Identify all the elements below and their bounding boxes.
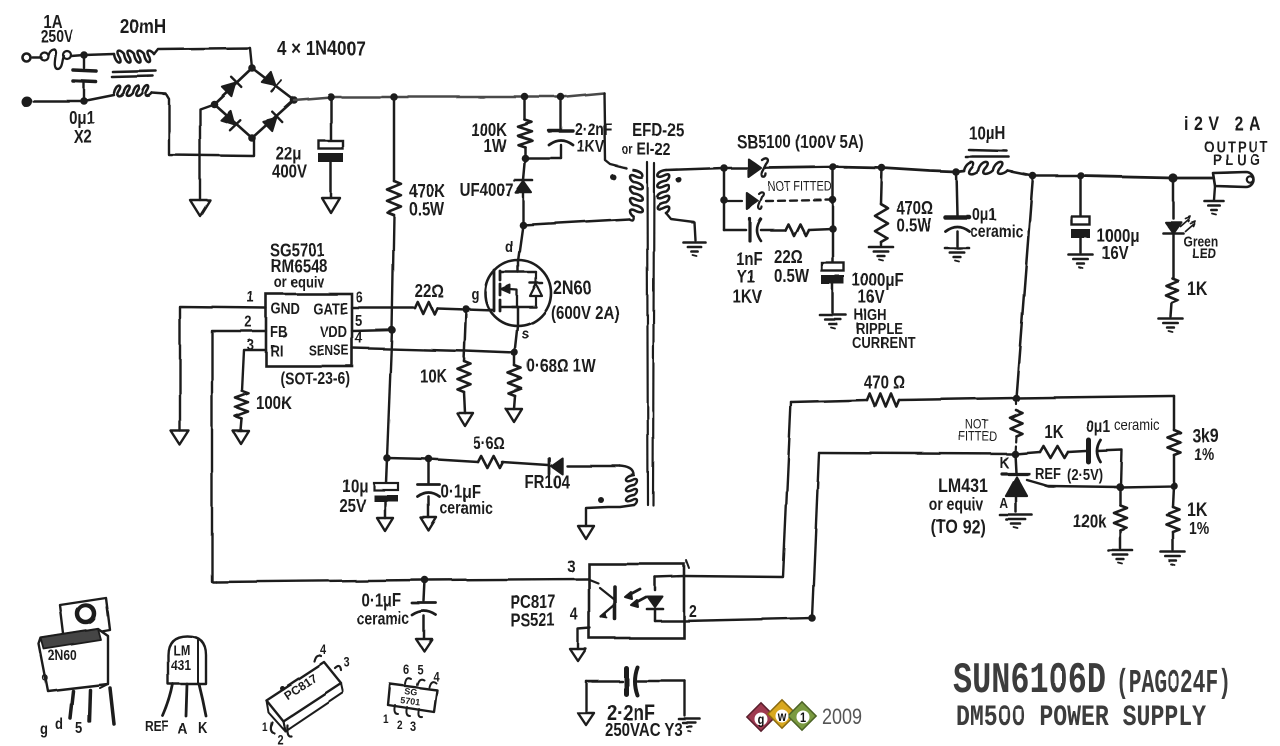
svg-text:1K: 1K — [1187, 499, 1208, 521]
svg-text:6: 6 — [403, 662, 409, 677]
svg-text:(2·5V): (2·5V) — [1067, 467, 1103, 484]
bridge diode D4 — [263, 112, 282, 131]
wire — [429, 459, 478, 462]
svg-text:w: w — [777, 709, 787, 724]
svg-text:100K: 100K — [256, 393, 292, 414]
node K — [1011, 450, 1019, 458]
wire — [502, 462, 548, 465]
label 120k — [1073, 511, 1107, 532]
ground — [1161, 552, 1185, 566]
wire — [1170, 455, 1178, 490]
svg-text:0μ1: 0μ1 — [69, 108, 95, 129]
wire not fitted dashed — [724, 200, 833, 201]
wire pin2 FB — [212, 331, 266, 582]
wire pin5 VDD — [352, 330, 392, 331]
LED green — [1163, 178, 1195, 233]
svg-text:16V: 16V — [1102, 243, 1129, 264]
node — [327, 93, 335, 101]
label SB5100 100V 5A — [737, 132, 864, 153]
svg-text:16V: 16V — [858, 287, 885, 308]
svg-text:20mH: 20mH — [120, 16, 166, 39]
capacitor C4 0.1uF ceramic — [418, 459, 440, 518]
node bridge bottom — [248, 134, 256, 142]
label 3k9 1% — [1192, 425, 1219, 465]
ground — [506, 409, 522, 422]
choke core — [112, 71, 156, 77]
svg-text:2: 2 — [245, 314, 252, 331]
ground — [1205, 201, 1224, 215]
svg-text:CURRENT: CURRENT — [852, 335, 916, 352]
svg-text:LED: LED — [1192, 245, 1216, 261]
wire — [567, 465, 620, 467]
pin number 1 — [247, 289, 254, 306]
svg-text:g: g — [758, 712, 765, 727]
label EFD-25 or EI-22 — [622, 120, 684, 160]
label 0u1 ceramic — [970, 206, 1023, 242]
pin number 1 tick — [686, 560, 689, 568]
wire HV rail — [294, 93, 604, 100]
node — [1116, 483, 1124, 491]
label 0.1uF ceramic — [440, 482, 493, 519]
svg-text:LM431: LM431 — [938, 475, 988, 497]
package LM431 pin labels — [145, 718, 208, 738]
package 2N60 pin labels — [40, 716, 82, 738]
svg-text:0·68Ω 1W: 0·68Ω 1W — [527, 356, 596, 377]
pin label VDD — [320, 324, 347, 341]
svg-text:DM500 POWER SUPPLY: DM500 POWER SUPPLY — [956, 701, 1206, 735]
svg-text:Y1: Y1 — [737, 267, 755, 288]
wire plug ground — [1214, 186, 1215, 200]
package 2N60 pin o — [42, 671, 48, 684]
label 0u1 ceramic — [1086, 417, 1160, 436]
svg-text:10K: 10K — [420, 366, 447, 387]
svg-text:250V: 250V — [41, 28, 74, 47]
label 5.6R — [473, 435, 504, 454]
svg-text:3: 3 — [567, 558, 575, 577]
svg-text:LM: LM — [173, 642, 190, 658]
svg-text:EI-22: EI-22 — [637, 141, 671, 160]
capacitor CX 0u1 X2 — [73, 55, 96, 101]
ground — [578, 713, 594, 725]
package SG5701 top pins — [405, 678, 436, 687]
svg-text:1W: 1W — [484, 136, 507, 157]
wire pin1 — [684, 402, 791, 577]
svg-text:25V: 25V — [339, 496, 366, 517]
svg-text:4 × 1N4007: 4 × 1N4007 — [277, 38, 365, 61]
package 2N60 label — [48, 647, 77, 663]
capacitor C10 1000u 16V — [1072, 176, 1090, 253]
package LM431 legs — [163, 684, 206, 716]
optocoupler light arrows — [625, 589, 646, 607]
svg-text:0.5W: 0.5W — [409, 199, 444, 220]
svg-text:RI: RI — [270, 343, 283, 360]
svg-text:1: 1 — [383, 713, 389, 726]
capacitor C2 2.2nF 1KV — [525, 97, 573, 158]
svg-text:or equiv: or equiv — [274, 274, 325, 291]
svg-text:A: A — [999, 495, 1008, 511]
svg-text:10μH: 10μH — [969, 123, 1006, 144]
resistor R3 100K — [236, 391, 249, 419]
svg-text:1K: 1K — [1044, 422, 1063, 443]
label K — [1000, 455, 1010, 472]
wire — [524, 97, 527, 120]
wire — [1008, 171, 1178, 183]
wire — [464, 309, 466, 361]
ground — [233, 431, 249, 444]
label FR104 — [525, 472, 571, 493]
resistor R8 470R — [867, 394, 899, 407]
svg-text:470 Ω: 470 Ω — [863, 372, 904, 393]
svg-text:SB5100 (100V 5A): SB5100 (100V 5A) — [737, 132, 864, 153]
pin label RI — [270, 343, 283, 360]
svg-text:VDD: VDD — [320, 324, 347, 341]
pin number 2 — [245, 314, 252, 331]
pin label FB — [270, 324, 287, 341]
label 2.2nF 250VAC Y3 — [605, 701, 683, 740]
svg-text:5: 5 — [417, 662, 423, 677]
svg-text:2: 2 — [689, 603, 697, 622]
wire — [1016, 396, 1174, 398]
svg-text:o: o — [42, 671, 48, 684]
svg-text:0·1μF: 0·1μF — [361, 590, 401, 611]
label A — [999, 495, 1008, 511]
package 2N60 body — [39, 629, 108, 691]
svg-text:ceramic: ceramic — [356, 610, 409, 629]
MOSFET Q1 2N60 — [485, 225, 551, 353]
svg-text:SUN6106D: SUN6106D — [953, 656, 1106, 706]
ground — [421, 518, 437, 531]
label s — [522, 326, 529, 343]
label 22u 400V — [272, 144, 308, 183]
svg-text:ceramic: ceramic — [970, 223, 1023, 242]
svg-text:2N60: 2N60 — [553, 277, 591, 299]
wire — [330, 162, 333, 198]
package SG5701 label — [400, 686, 421, 707]
svg-text:FITTED: FITTED — [959, 429, 998, 444]
svg-text:i2V 2A: i2V 2A — [1184, 113, 1266, 135]
label 1000uF 16V high ripple — [852, 270, 916, 353]
svg-text:431: 431 — [171, 657, 192, 673]
svg-text:0μ1: 0μ1 — [1086, 418, 1110, 437]
transformer T1 primary winding — [630, 170, 643, 216]
svg-text:g: g — [471, 286, 479, 303]
svg-text:d: d — [55, 716, 63, 733]
package LM431 label — [171, 642, 192, 673]
pin number 4 — [570, 606, 578, 625]
label 10uH — [969, 123, 1006, 144]
svg-text:250VAC Y3: 250VAC Y3 — [605, 720, 683, 741]
wire — [84, 95, 114, 101]
wire VDD line — [387, 215, 394, 458]
node bridge left — [210, 100, 218, 108]
svg-text:400V: 400V — [272, 162, 308, 183]
svg-text:22Ω: 22Ω — [774, 247, 803, 268]
svg-text:SENSE: SENSE — [308, 342, 349, 358]
label 12V 2A — [1184, 113, 1266, 135]
capacitor C1 22u 400V — [319, 141, 343, 162]
title DM500 POWER SUPPLY — [956, 701, 1206, 735]
svg-text:1KV: 1KV — [733, 287, 763, 308]
svg-text:6: 6 — [356, 290, 363, 307]
optocoupler LED — [647, 576, 684, 621]
resistor R2 100K 1W — [518, 120, 532, 147]
ground — [377, 518, 393, 531]
node — [878, 164, 886, 172]
wire — [586, 505, 634, 526]
wire — [1097, 450, 1122, 487]
ground — [869, 247, 893, 261]
ground — [578, 526, 594, 539]
svg-text:1K: 1K — [1187, 278, 1208, 300]
svg-text:1%: 1% — [1194, 446, 1214, 465]
svg-text:4: 4 — [320, 642, 326, 657]
wire — [1173, 396, 1176, 430]
wire REF — [1027, 480, 1174, 487]
label NOT FITTED — [959, 417, 998, 444]
label 10K — [420, 366, 447, 387]
svg-text:5: 5 — [355, 313, 362, 330]
label 100K — [256, 393, 292, 414]
resistor R1 470K 0.5W — [387, 181, 401, 215]
label 1K 1% — [1187, 499, 1209, 539]
wire — [71, 51, 88, 59]
ground — [1069, 255, 1093, 269]
bridge rectifier 4x1N4007 outline — [214, 68, 294, 138]
node — [521, 93, 529, 101]
wire — [464, 392, 465, 413]
label REF 2.5V — [1035, 466, 1103, 484]
choke L1 bottom winding — [114, 86, 152, 96]
label g — [471, 286, 479, 303]
package PC817 pin1 dot — [280, 686, 285, 691]
transformer T1 secondary winding — [657, 170, 669, 213]
wire pin2 — [684, 453, 819, 622]
wire pin3 stub — [588, 579, 598, 583]
svg-text:REF: REF — [1035, 466, 1061, 483]
capacitor C6 0u1 ceramic — [1089, 440, 1101, 462]
resistor R10 NOT FITTED — [1010, 398, 1022, 454]
svg-text:PS521: PS521 — [510, 610, 555, 631]
diode D6 FR104 — [549, 458, 562, 474]
LM431 body — [1006, 477, 1027, 512]
node gate — [462, 305, 470, 313]
label LM431 or equiv TO92 — [929, 475, 988, 538]
package 2N60 legs — [70, 688, 114, 724]
inductor L2 10uH — [964, 150, 1009, 174]
node — [383, 454, 391, 462]
ground — [457, 413, 473, 426]
package PC817 DIP body — [266, 662, 343, 731]
svg-text:0.5W: 0.5W — [774, 266, 809, 287]
wire K line — [819, 453, 1015, 454]
svg-text:GND: GND — [271, 301, 300, 318]
package 2N60 TO-220 tab — [60, 598, 110, 638]
node bridge top — [248, 64, 256, 72]
wire — [899, 394, 1020, 402]
optocoupler U2 PC817 box — [589, 564, 684, 638]
wire — [154, 48, 252, 68]
wire — [720, 168, 728, 230]
capacitor C11 2.2nF 250VAC Y — [586, 667, 685, 716]
label 1A 250V — [41, 12, 74, 47]
svg-text:120k: 120k — [1073, 511, 1107, 532]
logo gwi — [747, 700, 816, 731]
svg-text:0.5W: 0.5W — [896, 215, 931, 236]
resistor R4 22R — [415, 302, 437, 314]
pin number 3 — [567, 558, 575, 577]
resistor R16 1K — [1166, 233, 1178, 317]
svg-text:1KV: 1KV — [577, 138, 605, 157]
label UF4007 — [460, 180, 513, 201]
svg-text:3: 3 — [410, 719, 416, 734]
label SOT-23-6 — [280, 370, 350, 389]
diode D5 UF4007 — [514, 180, 532, 225]
svg-text:4: 4 — [570, 606, 578, 625]
label 22R — [415, 281, 444, 302]
wire — [387, 455, 433, 463]
svg-text:2: 2 — [397, 719, 403, 732]
svg-text:FB: FB — [270, 324, 287, 341]
svg-text:FR104: FR104 — [525, 472, 571, 493]
wire — [330, 97, 333, 141]
wire — [200, 104, 214, 200]
label 4 x 1N4007 — [277, 38, 365, 61]
ground — [945, 248, 969, 262]
package SG5701 bottom pins — [394, 705, 422, 717]
wire — [32, 56, 41, 59]
svg-text:g: g — [40, 721, 48, 738]
pin number 5 — [355, 313, 362, 330]
svg-text:(TO 92): (TO 92) — [931, 516, 986, 538]
capacitor C7 1nF Y1 1KV — [724, 219, 785, 241]
svg-text:s: s — [522, 326, 529, 343]
fuse F1 1A 250V — [40, 49, 71, 69]
wire — [523, 219, 629, 225]
svg-text:3k9: 3k9 — [1192, 425, 1219, 447]
capacitor C5 0.1uF ceramic FB — [216, 576, 436, 638]
node — [390, 93, 398, 101]
optocoupler phototransistor — [600, 587, 615, 619]
bridge diode D1 — [222, 77, 241, 96]
label d — [505, 239, 513, 256]
resistor R5 10K — [458, 361, 471, 392]
output plug — [1173, 172, 1254, 187]
svg-text:1: 1 — [262, 721, 268, 734]
svg-text:1%: 1% — [1189, 520, 1209, 539]
wire out rail — [766, 167, 964, 172]
label 0.68R 1W — [527, 356, 596, 377]
node — [829, 163, 837, 171]
node bridge right — [290, 96, 298, 104]
svg-text:(600V 2A): (600V 2A) — [551, 303, 619, 324]
svg-text:ceramic: ceramic — [1114, 417, 1160, 434]
svg-text:1: 1 — [800, 710, 806, 725]
svg-text:PLUG: PLUG — [1213, 152, 1264, 169]
label 1000u 16V — [1097, 226, 1140, 264]
wire — [829, 167, 837, 233]
svg-text:K: K — [198, 720, 208, 737]
label 1nF Y1 1KV — [733, 249, 763, 308]
package PC817 pins — [271, 655, 341, 736]
input terminal N — [22, 97, 31, 106]
svg-text:5: 5 — [75, 720, 82, 737]
package PC817 pin labels — [262, 642, 350, 746]
svg-text:3: 3 — [247, 337, 254, 354]
IC U1 SG5701 box — [266, 294, 352, 366]
label 1K — [1044, 422, 1063, 443]
wire pin3 RI — [242, 350, 266, 391]
capacitor C8 1000uF 16V — [822, 229, 844, 313]
ground secondary winding — [683, 242, 705, 256]
resistor R12 120k — [1114, 487, 1127, 548]
wire — [666, 168, 724, 170]
wire — [425, 579, 588, 580]
package LM431 TO-92 body — [168, 636, 206, 684]
wire — [720, 164, 748, 172]
label 470R — [863, 372, 904, 393]
ground — [1159, 319, 1183, 333]
svg-text:A: A — [178, 721, 188, 738]
ground — [570, 649, 586, 661]
wire — [666, 213, 695, 240]
wire pin6 GATE — [352, 307, 415, 310]
diode D8 not fitted — [747, 192, 764, 209]
svg-text:EFD-25: EFD-25 — [632, 120, 684, 141]
wire — [521, 147, 529, 180]
wire — [629, 216, 633, 220]
node — [557, 93, 565, 101]
svg-text:(SOT-23-6): (SOT-23-6) — [280, 370, 350, 389]
label 10u 25V — [339, 476, 368, 517]
input terminal L — [22, 53, 30, 61]
svg-text:NOT FITTED: NOT FITTED — [768, 179, 833, 194]
svg-text:0μ1: 0μ1 — [972, 206, 996, 225]
pin label GATE — [313, 301, 348, 318]
ground — [1108, 550, 1132, 564]
svg-text:2009: 2009 — [822, 705, 862, 729]
label green LED — [1183, 233, 1218, 261]
resistor R13 1K 1% — [1167, 486, 1180, 550]
resistor R7 5.6R — [478, 456, 503, 468]
pin label SENSE — [308, 342, 349, 358]
svg-text:2·2nF: 2·2nF — [575, 121, 612, 140]
LM431 shunt reg — [1002, 454, 1029, 474]
wire feedback drop — [1016, 176, 1033, 398]
label PC817 PS521 — [510, 592, 556, 631]
label SG5701 RM6548 or equiv — [269, 240, 327, 292]
wire pin4 SENSE — [352, 348, 515, 353]
pin label GND — [271, 301, 300, 318]
package SG5701 SOT-23 body — [388, 684, 437, 712]
svg-text:3: 3 — [344, 655, 350, 670]
ground — [820, 315, 846, 329]
svg-text:1: 1 — [247, 289, 254, 306]
pin number 6 — [356, 290, 363, 307]
wire — [393, 97, 396, 181]
resistor R11 1K — [1015, 446, 1086, 458]
phase dot secondary — [676, 177, 682, 183]
capacitor C3 10u 25V — [374, 458, 398, 518]
svg-text:2: 2 — [277, 732, 283, 746]
transformer T1 aux winding — [620, 466, 637, 505]
label NOT FITTED — [768, 179, 833, 194]
svg-text:10μ: 10μ — [342, 476, 368, 497]
svg-text:K: K — [1000, 455, 1010, 472]
title SUN6106D (PAG024F) — [953, 656, 1231, 706]
svg-text:2N60: 2N60 — [48, 647, 77, 663]
bridge diode D2 — [262, 72, 281, 91]
label OUTPUT PLUG — [1204, 139, 1269, 169]
